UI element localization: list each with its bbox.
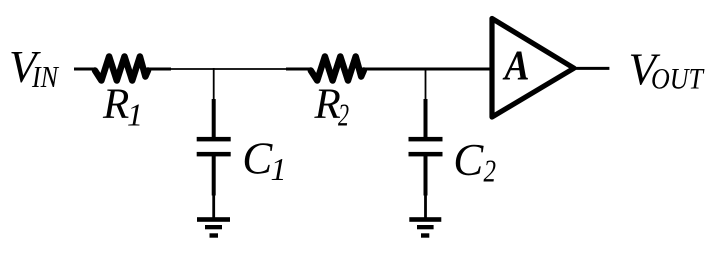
wire node B to amplifier (425, 68, 490, 71)
wire node A to R2 (214, 68, 287, 70)
label R2 (314, 81, 350, 133)
capacitor C2 top lead (424, 99, 428, 138)
node B junction (425, 68, 427, 100)
capacitor C2 (409, 137, 443, 157)
svg-text:R: R (102, 81, 129, 128)
svg-text:1: 1 (271, 151, 287, 187)
svg-text:C: C (453, 135, 484, 185)
label V_IN (9, 42, 60, 94)
wire C2 to ground (424, 194, 427, 219)
wire R2 left lead (286, 68, 312, 71)
svg-text:C: C (242, 134, 273, 184)
label R1 (102, 81, 143, 133)
capacitor C1 top lead (212, 99, 216, 138)
svg-text:A: A (502, 43, 530, 89)
node A junction (213, 68, 215, 100)
wire amplifier output (575, 67, 609, 70)
svg-text:2: 2 (338, 97, 349, 133)
wire R2 to node B (364, 68, 426, 71)
op-amp U1 (buffer A) (492, 19, 574, 118)
resistor R1 (95, 57, 148, 81)
ground (below C1) (197, 217, 230, 238)
label V_OUT (629, 45, 706, 96)
resistor R2 (311, 57, 364, 81)
capacitor C1 bottom lead (212, 155, 216, 196)
svg-text:R: R (314, 81, 341, 128)
svg-text:OUT: OUT (651, 62, 705, 95)
svg-text:2: 2 (484, 153, 497, 189)
wire R1 right lead (148, 68, 171, 71)
capacitor C2 bottom lead (424, 155, 428, 196)
label C1 (242, 134, 286, 188)
svg-text:1: 1 (127, 97, 143, 133)
svg-text:IN: IN (31, 59, 60, 94)
label C2 (453, 135, 496, 189)
wire R1 to node A (170, 68, 214, 70)
wire C1 to ground (212, 194, 215, 219)
ground (below C2) (409, 217, 441, 238)
wire input lead to R1 (74, 68, 96, 71)
capacitor C1 (197, 137, 231, 157)
